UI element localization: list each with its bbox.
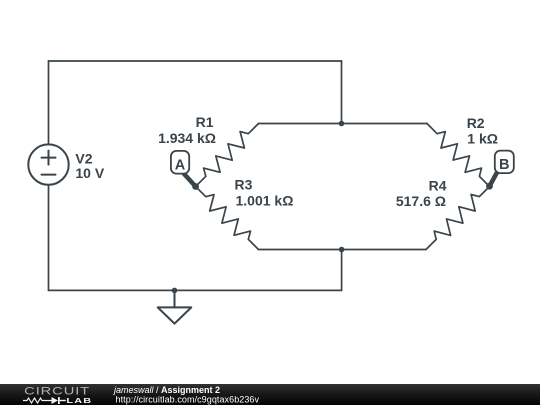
svg-text:1 kΩ: 1 kΩ <box>467 131 498 147</box>
svg-text:A: A <box>175 157 186 173</box>
resistor R4 <box>426 187 490 250</box>
svg-text:http://circuitlab.com/c9gqtax6: http://circuitlab.com/c9gqtax6b236v <box>116 394 260 404</box>
svg-text:LAB: LAB <box>66 396 92 404</box>
node junction top <box>339 121 345 127</box>
CircuitLab logo wordmark LAB <box>66 396 92 404</box>
svg-text:B: B <box>499 157 509 173</box>
resistor R3 <box>196 187 259 250</box>
wire left vertical top (V2 plus to top-left corner) <box>48 61 50 144</box>
wire bridge top-right horizontal <box>342 123 428 125</box>
node A junction <box>192 183 199 190</box>
svg-text:1.001 kΩ: 1.001 kΩ <box>236 193 294 209</box>
svg-text:jameswall / Assignment 2: jameswall / Assignment 2 <box>113 385 220 395</box>
voltage source V2 <box>28 144 68 184</box>
svg-text:1.934 kΩ: 1.934 kΩ <box>158 130 216 146</box>
svg-text:R4: R4 <box>429 178 447 194</box>
svg-text:R1: R1 <box>196 114 214 130</box>
node junction bottom <box>339 247 345 253</box>
wire bottom horizontal <box>49 289 342 291</box>
wire left vertical bottom (V2 minus to bottom wire) <box>48 185 50 291</box>
wire bridge bottom-left horizontal <box>259 249 342 251</box>
flag node B <box>490 151 514 187</box>
svg-text:CIRCUIT: CIRCUIT <box>24 384 90 397</box>
wire bridge bottom-right horizontal <box>342 249 426 251</box>
svg-text:R2: R2 <box>467 115 485 131</box>
wire bottom vertical from bridge bottom node <box>341 250 343 291</box>
wire top horizontal <box>49 60 342 62</box>
wire top right vertical down to bridge top node <box>341 61 343 124</box>
CircuitLab logo wordmark CIRCUIT <box>24 384 90 397</box>
footer author/title line <box>113 385 260 405</box>
node junction ground <box>172 288 178 294</box>
svg-text:R3: R3 <box>235 177 253 193</box>
flag node A <box>171 151 196 187</box>
svg-text:V2: V2 <box>75 150 92 166</box>
CircuitLab logo diode symbol <box>52 397 66 404</box>
footer bar <box>0 384 540 405</box>
wire bridge top-left horizontal <box>259 123 342 125</box>
CircuitLab logo resistor symbol <box>23 398 52 403</box>
svg-text:517.6 Ω: 517.6 Ω <box>396 193 446 209</box>
ground <box>158 290 192 323</box>
svg-text:10 V: 10 V <box>75 165 104 181</box>
node B junction <box>486 183 493 190</box>
resistor R1 <box>196 124 259 187</box>
resistor R2 <box>427 124 490 187</box>
